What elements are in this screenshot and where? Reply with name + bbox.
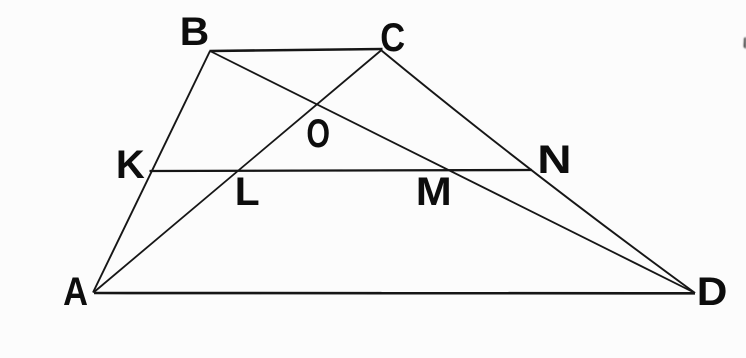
svg-text:M: M bbox=[416, 168, 452, 213]
svg-text:L: L bbox=[235, 168, 260, 214]
midline KN bbox=[150, 170, 533, 171]
svg-text:K: K bbox=[116, 143, 145, 187]
svg-text:N: N bbox=[537, 138, 571, 183]
side AB bbox=[93, 51, 210, 293]
svg-text:C: C bbox=[380, 15, 405, 60]
side CD bbox=[382, 51, 696, 294]
svg-text:B: B bbox=[180, 8, 209, 54]
stray mark at right edge bbox=[744, 37, 746, 49]
diagonal BD bbox=[210, 51, 695, 293]
diagonal AC bbox=[94, 50, 382, 293]
svg-text:A: A bbox=[63, 269, 88, 314]
side AD bbox=[94, 292, 695, 295]
side BC bbox=[210, 49, 383, 51]
svg-text:D: D bbox=[697, 269, 728, 314]
svg-text:O: O bbox=[306, 111, 330, 156]
